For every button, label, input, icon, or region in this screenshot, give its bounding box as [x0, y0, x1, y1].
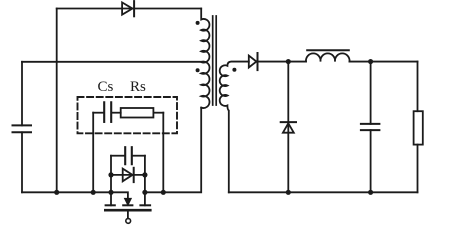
- wire left vertical (input bus x=56.7): [56, 9, 58, 193]
- transistor Q1 gate line: [105, 209, 150, 212]
- wire Rs to right drop: [153, 112, 163, 114]
- capacitor C2 link right: [133, 155, 145, 157]
- junction dot node-B / D3 branch: [142, 172, 147, 177]
- resistor R-load body: [414, 111, 423, 144]
- wire secondary top rail: [258, 61, 307, 63]
- wire snubber series link left: [93, 112, 103, 114]
- junction dot output cap bottom: [368, 190, 373, 195]
- junction dot freewheel bottom: [286, 190, 291, 195]
- wire load branch upper: [417, 62, 419, 112]
- wire middle rail (to transformer tap): [22, 61, 201, 63]
- wire outer-left vertical upper: [21, 62, 23, 126]
- transformer T1 primary winding (upper + lower, tap at middle rail): [201, 9, 209, 109]
- capacitor C3 (output filter cap): [361, 124, 380, 130]
- wire snubber right drop (x=163.3): [162, 113, 164, 193]
- junction dot node-B / drain rail: [142, 190, 147, 195]
- diode D2 (output rectifier): [249, 53, 258, 70]
- junction dot node-A / D3 branch: [108, 172, 113, 177]
- svg-text:Rs: Rs: [130, 79, 146, 95]
- wire drain rail to transformer bottom: [145, 108, 201, 193]
- transistor Q1 body arrow: [125, 198, 132, 205]
- gate terminal circle: [126, 219, 131, 224]
- wire bottom-left ground rail with elbow to body stub: [22, 192, 128, 198]
- capacitor C2 plates: [125, 147, 132, 164]
- junction dot output cap top: [368, 59, 373, 64]
- transistor Q1 body bar: [123, 204, 132, 206]
- transformer T1 secondary winding: [220, 62, 249, 193]
- diode D1 (reset diode, top rail): [122, 1, 134, 16]
- wire freewheel branch (x=288.3): [287, 62, 289, 193]
- wire gate lead: [127, 212, 129, 219]
- transistor Q1 drain bar: [140, 204, 150, 206]
- wire node-A vertical (source side x=111): [110, 156, 112, 206]
- junction dot snubber left / ground: [91, 190, 96, 195]
- junction dot input bus / ground: [54, 190, 59, 195]
- diode D3 (clamp diode): [123, 168, 134, 182]
- diode D4 (freewheeling diode): [281, 122, 296, 133]
- wire top rail (input loop top): [57, 8, 202, 10]
- junction dot freewheel top: [286, 59, 291, 64]
- transformer T1 core bars: [213, 16, 217, 105]
- wire choke to output corner: [350, 61, 418, 63]
- inductor L1 (output choke): [306, 53, 350, 61]
- resistor Rs body: [121, 108, 154, 118]
- capacitor C1 (input bulk cap): [13, 125, 32, 132]
- wire Cs to Rs: [112, 112, 121, 114]
- wire output cap branch upper: [370, 62, 372, 124]
- wire output cap branch lower: [370, 130, 372, 192]
- junction dot node-A / ground: [108, 190, 113, 195]
- polarity dot secondary: [232, 68, 236, 72]
- wire secondary bottom rail: [229, 191, 418, 193]
- polarity dot primary top: [196, 21, 200, 25]
- wire snubber left drop (x=93.2): [92, 113, 94, 193]
- dashed snubber box: [78, 97, 178, 133]
- transistor Q1 source bar: [106, 204, 115, 206]
- capacitor C2 link left: [111, 155, 124, 157]
- junction dot snubber right / drain rail: [161, 190, 166, 195]
- wire outer-left vertical lower: [21, 132, 23, 192]
- wire diode D3 branch: [111, 174, 145, 176]
- polarity dot primary lower: [196, 68, 200, 72]
- inductor L1 core bar: [307, 49, 349, 51]
- wire load branch lower: [417, 145, 419, 193]
- capacitor Cs plates: [104, 102, 111, 122]
- wire node-B vertical (drain side x=144.9): [144, 156, 146, 206]
- svg-text:Cs: Cs: [98, 79, 114, 95]
